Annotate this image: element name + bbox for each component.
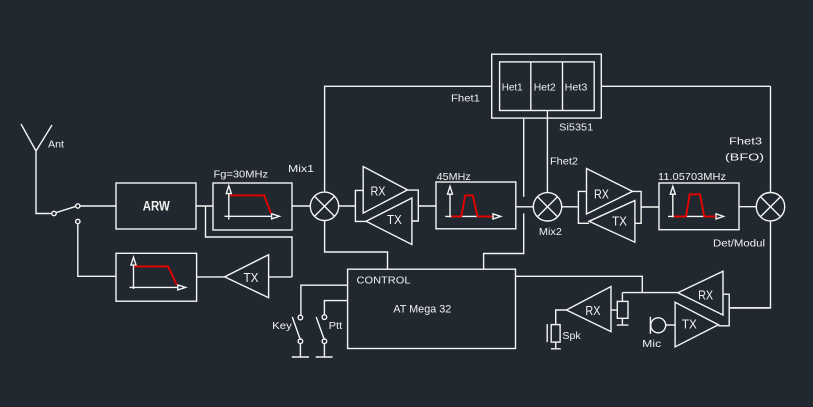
svg-text:CONTROL: CONTROL xyxy=(357,274,411,286)
svg-text:Spk: Spk xyxy=(562,330,581,342)
svg-text:Het2: Het2 xyxy=(534,82,556,94)
svg-text:(BFO): (BFO) xyxy=(725,152,764,164)
svg-text:RX: RX xyxy=(585,303,600,318)
svg-text:Si5351: Si5351 xyxy=(559,121,593,133)
svg-text:45MHz: 45MHz xyxy=(437,171,471,183)
svg-text:TX: TX xyxy=(612,214,627,229)
svg-text:AT Mega 32: AT Mega 32 xyxy=(393,303,451,315)
svg-text:TX: TX xyxy=(244,270,259,285)
svg-text:Mic: Mic xyxy=(642,338,661,350)
svg-text:TX: TX xyxy=(387,212,402,227)
svg-text:Fg=30MHz: Fg=30MHz xyxy=(214,169,269,181)
svg-text:RX: RX xyxy=(371,183,386,198)
svg-text:11.05703MHz: 11.05703MHz xyxy=(658,171,726,183)
svg-text:Key: Key xyxy=(272,320,292,332)
svg-text:Fhet3: Fhet3 xyxy=(729,136,762,148)
svg-text:Fhet1: Fhet1 xyxy=(451,93,480,105)
svg-text:Het3: Het3 xyxy=(565,82,588,94)
svg-text:Mix2: Mix2 xyxy=(539,226,562,238)
svg-text:Het1: Het1 xyxy=(502,82,523,94)
svg-text:ARW: ARW xyxy=(143,199,170,214)
svg-text:RX: RX xyxy=(594,186,609,201)
svg-text:RX: RX xyxy=(698,288,713,303)
svg-text:Ant: Ant xyxy=(48,139,64,151)
svg-text:Fhet2: Fhet2 xyxy=(550,156,578,168)
svg-text:Mix1: Mix1 xyxy=(288,163,314,175)
svg-text:TX: TX xyxy=(682,316,697,331)
svg-text:Det/Modul: Det/Modul xyxy=(713,238,765,250)
svg-text:Ptt: Ptt xyxy=(329,320,343,332)
